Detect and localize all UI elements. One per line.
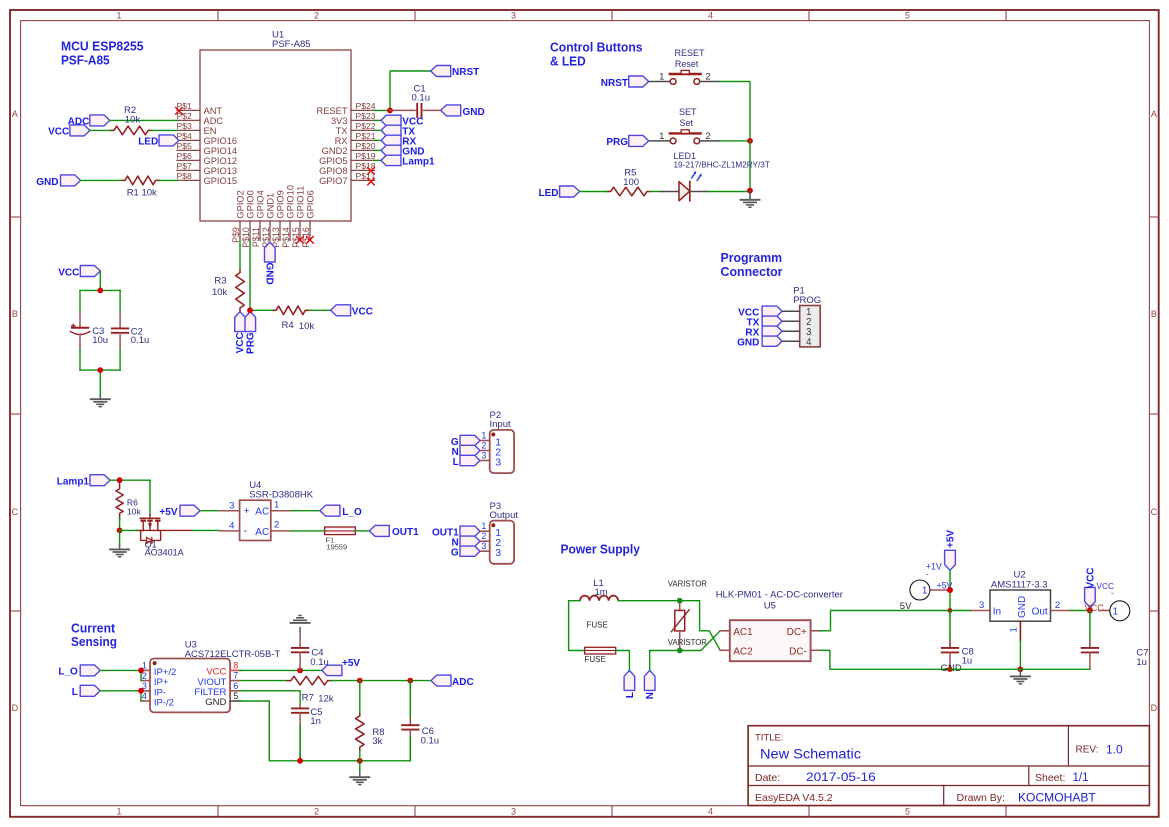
svg-text:GND: GND [36, 177, 58, 188]
svg-text:AC1: AC1 [733, 627, 753, 638]
wire gate wire down [149, 480, 151, 514]
net flag +5V supply [945, 550, 956, 570]
ground below C2/C3 [91, 399, 110, 406]
svg-text:GPIO16: GPIO16 [204, 136, 238, 146]
section header Current Sensing [71, 621, 117, 650]
svg-text:& LED: & LED [550, 54, 586, 69]
svg-text:Input: Input [490, 419, 511, 430]
svg-text:2: 2 [314, 807, 319, 817]
svg-text:GPIO11: GPIO11 [295, 186, 305, 219]
net flag P3 OUT1 [460, 526, 480, 536]
junction RESET node [387, 108, 393, 114]
svg-text:1: 1 [274, 499, 279, 510]
svg-text:PSF-A85: PSF-A85 [61, 53, 110, 68]
junction +5V tap [947, 587, 953, 593]
svg-text:ANT: ANT [204, 106, 223, 116]
wire R4 to VCC flag [309, 309, 331, 311]
svg-text:VARISTOR: VARISTOR [668, 638, 708, 647]
wire C2 bottom [119, 349, 121, 370]
IC U2 AMS1117-3.3 (regulator) [971, 570, 1071, 641]
svg-text:P$2: P$2 [177, 111, 193, 121]
svg-text:RESET: RESET [675, 48, 706, 58]
wire R7 to ADC [331, 680, 431, 682]
svg-text:19559: 19559 [326, 542, 347, 551]
svg-text:AC: AC [255, 507, 269, 518]
resistor R2 [110, 105, 151, 135]
junction VCC node [1087, 608, 1093, 614]
svg-text:+5V: +5V [946, 530, 957, 548]
connector P1 PROG [782, 286, 821, 349]
svg-text:TITLE:: TITLE: [755, 733, 784, 744]
IC U1 PSF-A85 (MCU module) [177, 30, 376, 248]
IC U4 SSR-D3808HK (solid state relay) [219, 480, 313, 541]
svg-text:P$22: P$22 [356, 121, 376, 131]
wire node to Q1 [120, 529, 137, 531]
svg-text:EasyEDA V4.5.2: EasyEDA V4.5.2 [755, 792, 833, 804]
svg-text:Set: Set [680, 118, 694, 128]
svg-text:SET: SET [679, 107, 697, 117]
wire C5 to rail [299, 725, 301, 761]
capacitor C6 [402, 681, 439, 761]
IC U5 HLK-PM01 AC-DC converter [716, 590, 843, 662]
svg-text:2017-05-16: 2017-05-16 [806, 772, 876, 784]
svg-text:4: 4 [806, 337, 812, 348]
svg-text:2: 2 [1055, 600, 1060, 611]
wire R2 to U1 pin P$3 [152, 129, 177, 131]
junction PRG node [247, 307, 253, 313]
svg-text:REV:: REV: [1076, 745, 1099, 756]
svg-text:GND: GND [1017, 596, 1028, 618]
wire tie pins 3-4 [140, 691, 142, 701]
svg-text:8: 8 [233, 660, 238, 670]
wire C6 to rail [409, 737, 411, 761]
svg-text:Reset: Reset [675, 59, 699, 69]
svg-text:R7: R7 [302, 693, 314, 704]
wire node to ground [119, 530, 121, 544]
svg-text:Lamp1: Lamp1 [402, 157, 435, 168]
capacitor C3 (polarized 10u) [70, 312, 108, 349]
net flag P1 RX [762, 326, 782, 336]
wire top rail C3-C2 [80, 289, 120, 291]
net flag VCC [70, 125, 90, 136]
junction GND rail at U2 [1018, 666, 1024, 672]
svg-text:SSR-D3808HK: SSR-D3808HK [249, 489, 314, 500]
junction C6 node [407, 678, 413, 684]
junction rail C5 [297, 758, 303, 764]
wire AC input left loop [569, 601, 585, 651]
svg-text:Sensing: Sensing [71, 634, 117, 649]
svg-text:GND: GND [263, 263, 274, 285]
net flag L into U3 [80, 685, 100, 696]
connector P2 Input [480, 410, 514, 473]
svg-text:TX: TX [336, 126, 348, 136]
junction Q1 source node [117, 528, 123, 534]
svg-text:P$8: P$8 [177, 171, 193, 181]
svg-text:RESET: RESET [317, 106, 348, 116]
svg-text:ADC: ADC [204, 116, 224, 126]
ground below Q1 [110, 549, 129, 556]
svg-text:LED1: LED1 [674, 151, 697, 161]
wire U2 GND down [1019, 641, 1021, 670]
svg-text:+5V: +5V [159, 507, 177, 518]
svg-text:LED: LED [539, 188, 559, 199]
junction U3 pin1 [138, 668, 144, 674]
wire C2 top lead green [119, 290, 121, 312]
svg-text:GPIO5: GPIO5 [319, 156, 347, 166]
wire U1 to flag TX [375, 129, 382, 131]
svg-text:L: L [72, 687, 78, 698]
svg-text:1u: 1u [962, 656, 973, 667]
svg-text:L: L [625, 692, 636, 698]
junction R8 node [357, 678, 363, 684]
svg-text:N: N [645, 692, 656, 699]
ground power supply [1011, 676, 1030, 683]
net flag L [624, 670, 635, 690]
svg-text:LED: LED [138, 137, 158, 148]
wire DC- to GND rail [820, 650, 950, 669]
wire VCC to R2 [90, 129, 110, 131]
wire U1 P$10 down to PRG node [249, 241, 251, 311]
wire GND rail current sensing [240, 701, 410, 761]
ground above C4 [291, 616, 310, 623]
svg-text:3: 3 [229, 500, 234, 511]
svg-text:FUSE: FUSE [587, 620, 608, 629]
svg-text:1: 1 [922, 586, 928, 597]
capacitor C4 [292, 632, 329, 671]
wire U2 Out to VCC [1070, 610, 1090, 612]
net flag P3 G [460, 546, 480, 556]
svg-text:G: G [451, 548, 459, 559]
svg-text:GPIO13: GPIO13 [204, 166, 238, 176]
svg-text:RX: RX [335, 136, 348, 146]
section header Control Buttons [550, 40, 643, 69]
svg-text:PROG: PROG [793, 295, 821, 306]
net flag +5V at U4 [180, 505, 200, 516]
svg-text:NRST: NRST [452, 67, 479, 78]
svg-text:GPIO0: GPIO0 [245, 190, 255, 218]
svg-text:GND1: GND1 [265, 193, 275, 219]
svg-text:+5V: +5V [342, 658, 360, 669]
fuse FUSE [585, 620, 616, 664]
svg-text:4: 4 [708, 11, 713, 21]
wire U1 to flag GND [375, 149, 382, 151]
svg-text:VCC: VCC [352, 307, 373, 318]
net flag PRG button side [629, 135, 649, 146]
svg-text:P$11: P$11 [251, 227, 261, 247]
capacitor C1 [390, 83, 441, 117]
svg-text:VCC: VCC [48, 127, 69, 138]
svg-text:2: 2 [481, 531, 486, 541]
wire fuse to L flag [616, 651, 630, 671]
svg-text:5: 5 [905, 807, 910, 817]
svg-text:L: L [453, 457, 459, 468]
svg-text:U5: U5 [764, 600, 776, 611]
svg-text:Lamp1: Lamp1 [57, 477, 90, 488]
svg-text:D: D [12, 703, 19, 713]
svg-text:3: 3 [495, 547, 501, 559]
wire U4 pin1 to L_O [291, 510, 320, 512]
net flag L_O [320, 505, 340, 516]
net flag GND [61, 175, 81, 186]
svg-text:R4: R4 [282, 320, 294, 331]
svg-text:GPIO10: GPIO10 [285, 185, 295, 219]
svg-text:VCC: VCC [1085, 567, 1096, 588]
svg-text:P$20: P$20 [356, 141, 376, 151]
svg-text:PRG: PRG [606, 137, 628, 148]
svg-text:1: 1 [1113, 606, 1119, 617]
net flag PRG [245, 312, 256, 332]
svg-text:12k: 12k [318, 694, 334, 705]
svg-text:1: 1 [116, 807, 121, 817]
junction rail at LED [747, 188, 753, 194]
svg-text:-: - [1111, 589, 1114, 598]
svg-text:1/1: 1/1 [1073, 772, 1089, 784]
pushbutton RESET [649, 48, 719, 85]
wire N to AC1 crossover [680, 631, 721, 651]
svg-text:GPIO14: GPIO14 [204, 146, 238, 156]
svg-text:VCC: VCC [58, 267, 79, 278]
section header MCU [61, 39, 144, 68]
capacitor C8 [942, 611, 974, 670]
inductor L1 1m [580, 578, 618, 601]
net flag P1 TX [762, 316, 782, 326]
svg-text:7: 7 [233, 671, 238, 681]
resistor R3 [212, 269, 244, 311]
wire C3 bottom [79, 349, 81, 370]
svg-text:19-217/BHC-ZL1M2RY/3T: 19-217/BHC-ZL1M2RY/3T [674, 160, 770, 169]
svg-text:L_O: L_O [58, 667, 78, 678]
svg-text:P$23: P$23 [356, 111, 376, 121]
svg-text:5: 5 [233, 691, 238, 701]
wire R1 to U1 pin P$8 [159, 179, 177, 181]
svg-text:5: 5 [905, 11, 910, 21]
wire DC+ to 5V rail [820, 611, 950, 631]
net flag RX [381, 135, 401, 145]
wire U1 to flag RX [375, 139, 382, 141]
fuse F1 19559 [325, 527, 356, 551]
net flag ADC [90, 115, 110, 126]
svg-text:Out: Out [1032, 606, 1048, 617]
net flag NRST [431, 66, 451, 77]
svg-text:4: 4 [229, 521, 234, 532]
svg-text:GPIO9: GPIO9 [275, 190, 285, 218]
svg-text:New Schematic: New Schematic [760, 747, 861, 762]
pushbutton SET [649, 107, 719, 144]
title block [748, 726, 1149, 806]
svg-text:-: - [926, 570, 929, 579]
svg-text:GND2: GND2 [322, 146, 348, 156]
svg-text:GPIO15: GPIO15 [204, 176, 238, 186]
LED LED1 19-217/BHC-ZL1M2RY/3T [661, 151, 770, 201]
svg-text:P$5: P$5 [177, 141, 193, 151]
net flag P3 N [460, 536, 480, 546]
net flag ADC out [431, 675, 451, 686]
wire ADC to U1 pin P$2 [110, 119, 177, 121]
svg-text:PSF-A85: PSF-A85 [272, 39, 311, 50]
svg-text:AMS1117-3.3: AMS1117-3.3 [991, 579, 1048, 590]
transistor Q1 AO3401A (P-MOSFET) [137, 515, 192, 558]
wire L to AC2 crossover [700, 601, 721, 651]
net flag TX [381, 125, 401, 135]
svg-text:10k: 10k [127, 506, 142, 516]
svg-text:AC2: AC2 [733, 647, 753, 658]
net flag L_O into U3 [80, 665, 100, 676]
svg-text:DC-: DC- [789, 647, 807, 658]
svg-text:GND: GND [737, 337, 759, 348]
svg-text:1.0: 1.0 [1106, 743, 1123, 757]
wire U1 P$9 to R3 [239, 241, 241, 270]
section header Power Supply [561, 542, 641, 557]
wire VIOUT to R7 [240, 680, 287, 682]
net flag VCC B-row [80, 266, 100, 277]
connector P3 Output [480, 501, 518, 564]
svg-text:GPIO2: GPIO2 [235, 190, 245, 218]
wire RESET to vertical rail [719, 82, 750, 141]
net flag GND right of C1 [441, 105, 461, 116]
net flag VCC supply [1085, 587, 1096, 607]
svg-text:C: C [12, 507, 19, 517]
svg-text:VARISTOR: VARISTOR [668, 579, 708, 588]
svg-text:1: 1 [481, 430, 486, 440]
svg-text:FUSE: FUSE [585, 655, 606, 664]
ground control section [741, 200, 760, 207]
svg-text:GPIO6: GPIO6 [305, 190, 315, 218]
wire SET to rail [719, 140, 750, 142]
junction C4 node [297, 668, 303, 674]
wire RESET pin to node [375, 109, 391, 111]
svg-text:In: In [993, 606, 1001, 617]
svg-text:0.1u: 0.1u [310, 657, 329, 668]
wire L1 to varistor node [618, 600, 699, 602]
wire Lamp1 to gate node [110, 479, 150, 481]
svg-text:HLK-PM01 - AC-DC-converter: HLK-PM01 - AC-DC-converter [716, 590, 843, 601]
svg-text:D: D [1151, 703, 1158, 713]
svg-text:2: 2 [314, 11, 319, 21]
resistor R1 [122, 176, 160, 198]
svg-text:P$15: P$15 [291, 227, 301, 248]
junction bottom rail [97, 367, 103, 373]
junction GND rail at C8 [947, 667, 952, 672]
net port left 1 [910, 580, 930, 600]
wire tie pins 1-2 [140, 670, 142, 680]
svg-text:+: + [243, 505, 249, 517]
net flag LED [560, 186, 580, 197]
resistor R6 [116, 483, 141, 520]
svg-text:3V3: 3V3 [331, 116, 348, 126]
net flag N [644, 670, 655, 690]
svg-text:0.1u: 0.1u [131, 335, 150, 346]
svg-text:0.1u: 0.1u [421, 735, 440, 746]
svg-text:Drawn By:: Drawn By: [957, 792, 1005, 804]
junction rail R8 [357, 758, 363, 764]
net flag LED [159, 135, 179, 146]
net flag P1 VCC [762, 306, 782, 316]
junction varistor bottom [677, 648, 683, 654]
svg-text:0.1u: 0.1u [412, 93, 431, 104]
junction U3 pin3 [138, 688, 144, 694]
svg-text:P$24: P$24 [356, 101, 376, 111]
svg-text:P$1: P$1 [177, 101, 193, 111]
wire GND rail right [950, 668, 1090, 670]
junction rail at SET [747, 138, 753, 144]
wire N up to varistor node [650, 651, 680, 671]
svg-text:3: 3 [481, 541, 486, 551]
svg-text:AO3401A: AO3401A [145, 547, 184, 557]
junction 5V rail at C8 [948, 608, 953, 613]
svg-text:R3: R3 [214, 275, 226, 286]
svg-text:Power Supply: Power Supply [561, 542, 641, 557]
wire rail to ground [359, 761, 361, 772]
net flag OUT1 [369, 525, 389, 536]
svg-text:10k: 10k [125, 115, 141, 126]
wire node to NRST flag [390, 71, 431, 110]
svg-text:10u: 10u [92, 335, 108, 346]
svg-text:1u: 1u [1136, 657, 1147, 668]
wire FILTER to C5 [240, 691, 300, 705]
svg-text:Connector: Connector [721, 264, 783, 279]
svg-text:3: 3 [481, 450, 486, 460]
svg-text:Control Buttons: Control Buttons [550, 40, 643, 55]
svg-text:100: 100 [623, 177, 639, 188]
svg-text:Sheet:: Sheet: [1035, 772, 1065, 784]
net flag P2 L [460, 455, 480, 465]
wire bottom rail [80, 369, 120, 371]
wire U4 pin2 to F1 [291, 530, 325, 532]
wire VCC flag down [99, 271, 101, 290]
svg-text:P$7: P$7 [177, 161, 193, 171]
svg-text:-: - [243, 525, 247, 537]
capacitor C5 [292, 705, 323, 761]
wire U1 to flag Lamp1 [375, 159, 382, 161]
wire +5V to U4 pin3 [200, 510, 219, 512]
svg-text:3: 3 [511, 11, 516, 21]
svg-text:OUT1: OUT1 [392, 527, 419, 538]
net flag +5V at U3 [322, 665, 342, 675]
svg-text:1: 1 [1009, 627, 1020, 632]
svg-text:KOCMOHABT: KOCMOHABT [1018, 793, 1096, 805]
svg-text:IP-/2: IP-/2 [154, 698, 174, 709]
junction Lamp1 node [117, 477, 123, 483]
svg-text:P$19: P$19 [356, 151, 376, 161]
svg-text:EN: EN [204, 126, 217, 136]
net flag GND [381, 145, 401, 155]
net flag VCC bottom [235, 312, 246, 332]
svg-text:3: 3 [495, 457, 501, 469]
svg-text:GPIO4: GPIO4 [255, 190, 265, 218]
svg-text:10k: 10k [299, 321, 315, 332]
svg-text:5V: 5V [900, 601, 912, 612]
wire LED flag to R5 [580, 191, 608, 193]
wire LED1 to rail [709, 191, 750, 193]
svg-text:AC: AC [255, 527, 269, 538]
svg-text:1n: 1n [310, 716, 321, 727]
svg-text:GPIO12: GPIO12 [204, 156, 238, 166]
svg-text:Date:: Date: [755, 772, 780, 784]
wire GND to R1 [81, 179, 122, 181]
svg-text:Programm: Programm [721, 250, 783, 265]
svg-text:ADC: ADC [452, 677, 474, 688]
svg-text:P$3: P$3 [177, 121, 193, 131]
wire U1 to flag VCC [375, 119, 382, 121]
svg-text:DC+: DC+ [787, 627, 807, 638]
net flag NRST button side [629, 76, 649, 87]
svg-text:VCC: VCC [235, 332, 246, 353]
no-connect X marks on U1 [175, 107, 375, 244]
svg-text:3: 3 [979, 600, 984, 611]
svg-text:C: C [1151, 507, 1158, 517]
capacitor C7 [1082, 611, 1149, 670]
svg-text:A: A [12, 109, 18, 119]
